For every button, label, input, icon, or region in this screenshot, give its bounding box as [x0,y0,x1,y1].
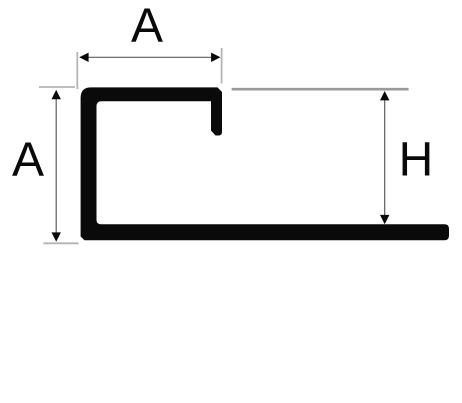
left dim extension tick bottom [44,242,79,244]
top dim extension line right [221,48,223,84]
profile cross-section (thick black J-shape) [81,87,449,240]
svg-text:H: H [399,134,434,187]
arrowhead up (left dim) [52,90,61,99]
top dim extension line left [76,52,78,89]
left dim extension tick top [39,86,75,88]
svg-text:A: A [131,0,163,53]
arrowhead up (H dim) [380,91,389,100]
arrowhead down (left dim) [52,232,61,241]
arrowhead down (H dim) [380,215,389,224]
arrowhead left (top dim) [79,53,88,62]
dimension line A (left) [55,96,57,236]
dimension line H (right) [384,98,386,218]
arrowhead right (top dim) [211,53,220,62]
tile surface reference line (gray) [232,88,409,91]
svg-text:A: A [12,134,44,187]
dimension line A (top) [85,56,214,58]
